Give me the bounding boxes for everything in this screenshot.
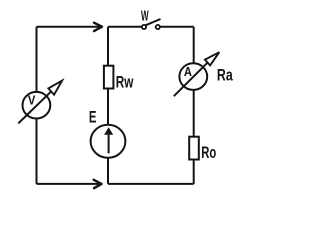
svg-text:Ro: Ro <box>201 144 216 162</box>
current arrow on top-left wire <box>94 23 102 31</box>
svg-text:W: W <box>141 8 149 24</box>
ammeter A body <box>179 63 207 90</box>
ammeter needle shaft <box>174 63 208 97</box>
switch W lever <box>146 19 161 25</box>
ammeter needle arrowhead <box>205 52 219 65</box>
wire left vertical top (top-left node to voltmeter) <box>36 27 38 92</box>
wire middle vertical bottom (E to bottom node) <box>107 158 109 184</box>
wire right vertical (node to ammeter) <box>193 27 195 64</box>
svg-text:Rw: Rw <box>116 74 134 92</box>
source E arrowhead <box>104 127 113 135</box>
switch W right contact <box>156 25 160 29</box>
svg-text:V: V <box>28 92 36 107</box>
wire bottom-left horizontal <box>37 183 100 185</box>
wire left vertical bottom (voltmeter to bottom-left node) <box>36 119 38 184</box>
voltmeter V body <box>23 92 51 119</box>
voltmeter needle shaft <box>18 91 51 123</box>
current arrow on bottom-left wire <box>94 180 102 188</box>
resistor Ro body <box>189 137 199 160</box>
wire top-left horizontal <box>37 26 101 28</box>
wire top right (switch to top-right node) <box>160 26 194 28</box>
wire bottom (middle node to right node) <box>108 183 194 185</box>
svg-text:Ra: Ra <box>217 67 233 85</box>
wire right (ammeter to Ro) <box>193 90 195 137</box>
svg-text:E: E <box>89 108 97 127</box>
wire middle vertical (top node to Rw) <box>107 27 109 66</box>
wire right vertical bottom (Ro to bottom node) <box>193 160 195 184</box>
resistor Rw body <box>104 66 114 89</box>
svg-text:A: A <box>184 64 193 79</box>
source E body <box>91 125 126 158</box>
wire middle (Rw to source E) <box>107 89 109 125</box>
wire top middle (node to switch) <box>108 26 142 28</box>
switch W left contact <box>142 25 146 29</box>
voltmeter needle arrowhead <box>48 81 62 95</box>
source E arrow shaft <box>108 134 110 154</box>
